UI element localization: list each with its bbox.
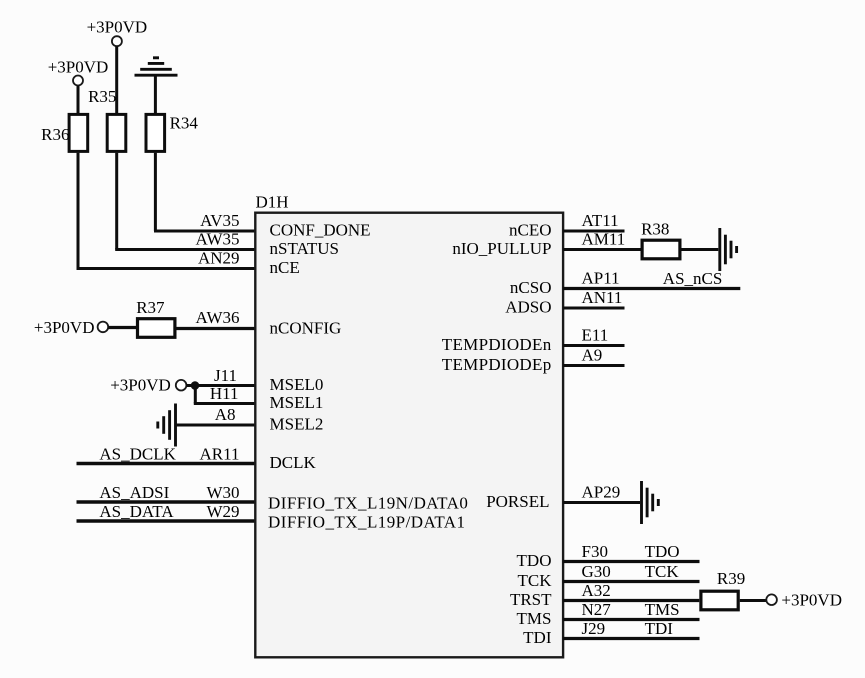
svg-text:TCK: TCK	[518, 571, 553, 590]
wire +3P0VD to R36	[77, 86, 80, 114]
svg-text:nIO_PULLUP: nIO_PULLUP	[452, 239, 551, 258]
svg-text:nCONFIG: nCONFIG	[270, 319, 342, 338]
svg-text:AS_nCS: AS_nCS	[663, 269, 723, 288]
svg-text:TCK: TCK	[645, 562, 680, 581]
net label TDI	[645, 619, 674, 638]
svg-text:W29: W29	[206, 502, 239, 521]
svg-text:TDO: TDO	[517, 551, 552, 570]
wire ground to MSEL2 pin (A8)	[176, 424, 256, 427]
pin number W30	[206, 483, 239, 502]
ground (MSEL2)	[158, 404, 176, 447]
wire TDO net (F30)	[563, 560, 699, 563]
pin name TDO	[517, 551, 552, 570]
pin name TMS	[517, 609, 552, 628]
pin name nCE	[270, 258, 300, 277]
wire nIO_PULLUP to R38 (AM11)	[563, 248, 640, 251]
resistor R35	[107, 114, 126, 151]
power +3P0VD symbol circle (nCONFIG)	[98, 322, 109, 333]
power +3P0VD label (nCONFIG)	[34, 318, 95, 337]
power +3P0VD symbol circle (MSEL)	[176, 380, 187, 391]
svg-text:TEMPDIODEp: TEMPDIODEp	[442, 355, 552, 374]
svg-text:A32: A32	[582, 581, 611, 600]
ground (above R34)	[135, 58, 178, 75]
power +3P0VD label (MSEL)	[110, 376, 171, 395]
wire TRST to R39 (A32)	[563, 599, 699, 602]
wire TCK net (G30)	[563, 580, 699, 583]
wire +3P0VD to R37	[108, 326, 137, 329]
wire junction to MSEL0 pin (J11)	[195, 384, 255, 387]
pin number AV35	[200, 211, 239, 230]
pin name DIFFIO_TX_L19P/DATA1	[268, 513, 465, 532]
wire nCEO stub (AT11)	[563, 230, 624, 233]
svg-text:AN29: AN29	[198, 249, 240, 268]
junction dot MSEL	[191, 381, 200, 390]
wire +3P0VD circle to junction	[186, 384, 195, 387]
wire PORSEL to ground (AP29)	[563, 501, 640, 504]
pin number W29	[206, 502, 239, 521]
wire net AS_ADSI to DATA0 pin (W30)	[77, 500, 256, 503]
pin number AW35	[196, 230, 240, 249]
wire TEMPDIODEn stub (E11)	[563, 344, 624, 347]
svg-text:J11: J11	[214, 366, 237, 385]
pin number AR11	[200, 444, 240, 463]
svg-text:PORSEL: PORSEL	[486, 492, 549, 511]
svg-text:TRST: TRST	[510, 590, 552, 609]
pin name TEMPDIODEn	[442, 335, 552, 354]
svg-text:MSEL2: MSEL2	[270, 415, 324, 434]
net label TMS	[645, 600, 680, 619]
op IC D1H body	[255, 213, 563, 658]
svg-text:AS_ADSI: AS_ADSI	[99, 483, 169, 502]
wire R36 to nCE pin (AN29)	[77, 153, 256, 269]
svg-text:+3P0VD: +3P0VD	[87, 18, 148, 37]
label R34	[170, 114, 199, 133]
pin name nCEO	[509, 221, 552, 240]
pin name TRST	[510, 590, 552, 609]
svg-text:R39: R39	[717, 569, 745, 588]
svg-text:G30: G30	[582, 562, 611, 581]
svg-text:F30: F30	[582, 542, 608, 561]
svg-text:ADSO: ADSO	[505, 298, 551, 317]
resistor R38	[642, 240, 680, 259]
pin number H11	[210, 384, 239, 403]
pin name nSTATUS	[270, 239, 340, 258]
power +3P0VD label (R35 rail)	[87, 18, 148, 37]
svg-text:R36: R36	[41, 125, 69, 144]
pin number A32	[582, 581, 611, 600]
wire R39 to +3P0VD	[740, 599, 767, 602]
svg-text:DIFFIO_TX_L19P/DATA1: DIFFIO_TX_L19P/DATA1	[268, 513, 465, 532]
resistor R39	[701, 591, 738, 610]
wire nCSO net AS_nCS (AP11)	[563, 287, 740, 290]
svg-text:D1H: D1H	[256, 192, 289, 211]
wire net AS_DATA to DATA1 pin (W29)	[77, 519, 256, 522]
wire junction down to MSEL1 row	[194, 386, 197, 404]
label R35	[88, 87, 116, 106]
svg-text:+3P0VD: +3P0VD	[48, 58, 109, 77]
ground (PORSEL)	[642, 481, 659, 524]
resistor R36	[69, 114, 88, 151]
svg-text:W30: W30	[206, 483, 239, 502]
svg-text:MSEL0: MSEL0	[270, 375, 324, 394]
pin number G30	[582, 562, 611, 581]
svg-text:A8: A8	[215, 405, 236, 424]
net label TDO	[645, 542, 680, 561]
pin name ADSO	[505, 298, 551, 317]
svg-text:TDI: TDI	[645, 619, 674, 638]
svg-text:AP11: AP11	[582, 269, 620, 288]
pin number F30	[582, 542, 608, 561]
pin name TDI	[523, 628, 552, 647]
net label AS_ADSI	[99, 483, 169, 502]
wire net AS_DCLK to DCLK pin (AR11)	[77, 462, 256, 465]
pin name nCONFIG	[270, 319, 342, 338]
wire to MSEL1 pin (H11)	[194, 402, 256, 405]
pin name DCLK	[270, 453, 317, 472]
pin number AT11	[582, 211, 619, 230]
wire R35 to nSTATUS pin (AW35)	[115, 153, 255, 250]
svg-text:MSEL1: MSEL1	[270, 393, 324, 412]
pin name CONF_DONE	[270, 221, 371, 240]
svg-text:R37: R37	[136, 298, 165, 317]
pin name TEMPDIODEp	[442, 355, 552, 374]
resistor R34	[146, 114, 165, 151]
label R39	[717, 569, 745, 588]
power +3P0VD symbol circle (R39)	[766, 594, 777, 605]
svg-text:AN11: AN11	[582, 288, 623, 307]
wire R38 to ground	[682, 248, 719, 251]
pin name nIO_PULLUP	[452, 239, 551, 258]
label R38	[641, 219, 669, 238]
svg-text:R38: R38	[641, 219, 669, 238]
power +3P0VD symbol circle (R35 rail)	[112, 36, 122, 46]
svg-text:R34: R34	[170, 114, 199, 133]
power +3P0VD label (R36 rail)	[48, 58, 109, 77]
wire +3P0VD to R35	[115, 46, 118, 114]
svg-text:AW35: AW35	[196, 230, 240, 249]
power +3P0VD label (R39)	[781, 591, 842, 610]
svg-text:R35: R35	[88, 87, 116, 106]
pin number AN11	[582, 288, 623, 307]
svg-text:nCEO: nCEO	[509, 221, 552, 240]
wire TMS net (N27)	[563, 618, 699, 621]
wire R34 to CONF_DONE pin (AV35)	[154, 153, 255, 231]
pin name MSEL0	[270, 375, 324, 394]
net label AS_DATA	[99, 502, 174, 521]
svg-text:N27: N27	[582, 600, 612, 619]
pin name MSEL1	[270, 393, 324, 412]
refdes D1H	[256, 192, 289, 211]
pin number E11	[582, 326, 609, 345]
label R37	[136, 298, 165, 317]
pin number A8	[215, 405, 236, 424]
net label AS_nCS	[663, 269, 723, 288]
pin number A9	[582, 346, 603, 365]
svg-text:DCLK: DCLK	[270, 453, 317, 472]
net label TCK	[645, 562, 680, 581]
svg-text:nSTATUS: nSTATUS	[270, 239, 340, 258]
pin name nCSO	[510, 278, 552, 297]
wire TDI net (J29)	[563, 637, 699, 640]
wire ground to R34	[154, 75, 157, 114]
label R36	[41, 125, 69, 144]
svg-text:+3P0VD: +3P0VD	[781, 591, 842, 610]
wire ADSO stub (AN11)	[563, 307, 624, 310]
pin number AM11	[582, 230, 626, 249]
svg-text:AM11: AM11	[582, 230, 626, 249]
svg-text:TDI: TDI	[523, 628, 552, 647]
pin name DIFFIO_TX_L19N/DATA0	[268, 494, 468, 513]
svg-text:DIFFIO_TX_L19N/DATA0: DIFFIO_TX_L19N/DATA0	[268, 494, 468, 513]
wire R37 to nCONFIG pin (AW36)	[177, 327, 256, 330]
pin name PORSEL	[486, 492, 549, 511]
ground (nIO_PULLUP)	[720, 228, 737, 271]
pin number N27	[582, 600, 612, 619]
svg-text:TMS: TMS	[517, 609, 552, 628]
pin number J11	[214, 366, 237, 385]
svg-text:AR11: AR11	[200, 444, 240, 463]
svg-text:nCSO: nCSO	[510, 278, 552, 297]
pin number AP11	[582, 269, 620, 288]
svg-text:J29: J29	[582, 619, 606, 638]
svg-text:+3P0VD: +3P0VD	[34, 318, 95, 337]
svg-text:CONF_DONE: CONF_DONE	[270, 221, 371, 240]
pin number AP29	[582, 483, 621, 502]
svg-text:TDO: TDO	[645, 542, 680, 561]
svg-text:AP29: AP29	[582, 483, 621, 502]
svg-text:AW36: AW36	[196, 308, 240, 327]
svg-text:H11: H11	[210, 384, 239, 403]
svg-text:AS_DATA: AS_DATA	[99, 502, 174, 521]
resistor R37	[138, 319, 175, 338]
pin name MSEL2	[270, 415, 324, 434]
svg-text:TMS: TMS	[645, 600, 680, 619]
net label AS_DCLK	[99, 444, 176, 463]
power +3P0VD symbol circle (R36 rail)	[73, 76, 83, 86]
svg-text:+3P0VD: +3P0VD	[110, 376, 171, 395]
svg-text:nCE: nCE	[270, 258, 300, 277]
pin number J29	[582, 619, 606, 638]
svg-text:AT11: AT11	[582, 211, 619, 230]
svg-text:AS_DCLK: AS_DCLK	[99, 444, 176, 463]
pin number AW36	[196, 308, 240, 327]
svg-text:AV35: AV35	[200, 211, 239, 230]
pin number AN29	[198, 249, 240, 268]
wire TEMPDIODEp stub (A9)	[563, 364, 624, 367]
svg-text:TEMPDIODEn: TEMPDIODEn	[442, 335, 552, 354]
svg-text:A9: A9	[582, 346, 603, 365]
svg-text:E11: E11	[582, 326, 609, 345]
pin name TCK	[518, 571, 553, 590]
